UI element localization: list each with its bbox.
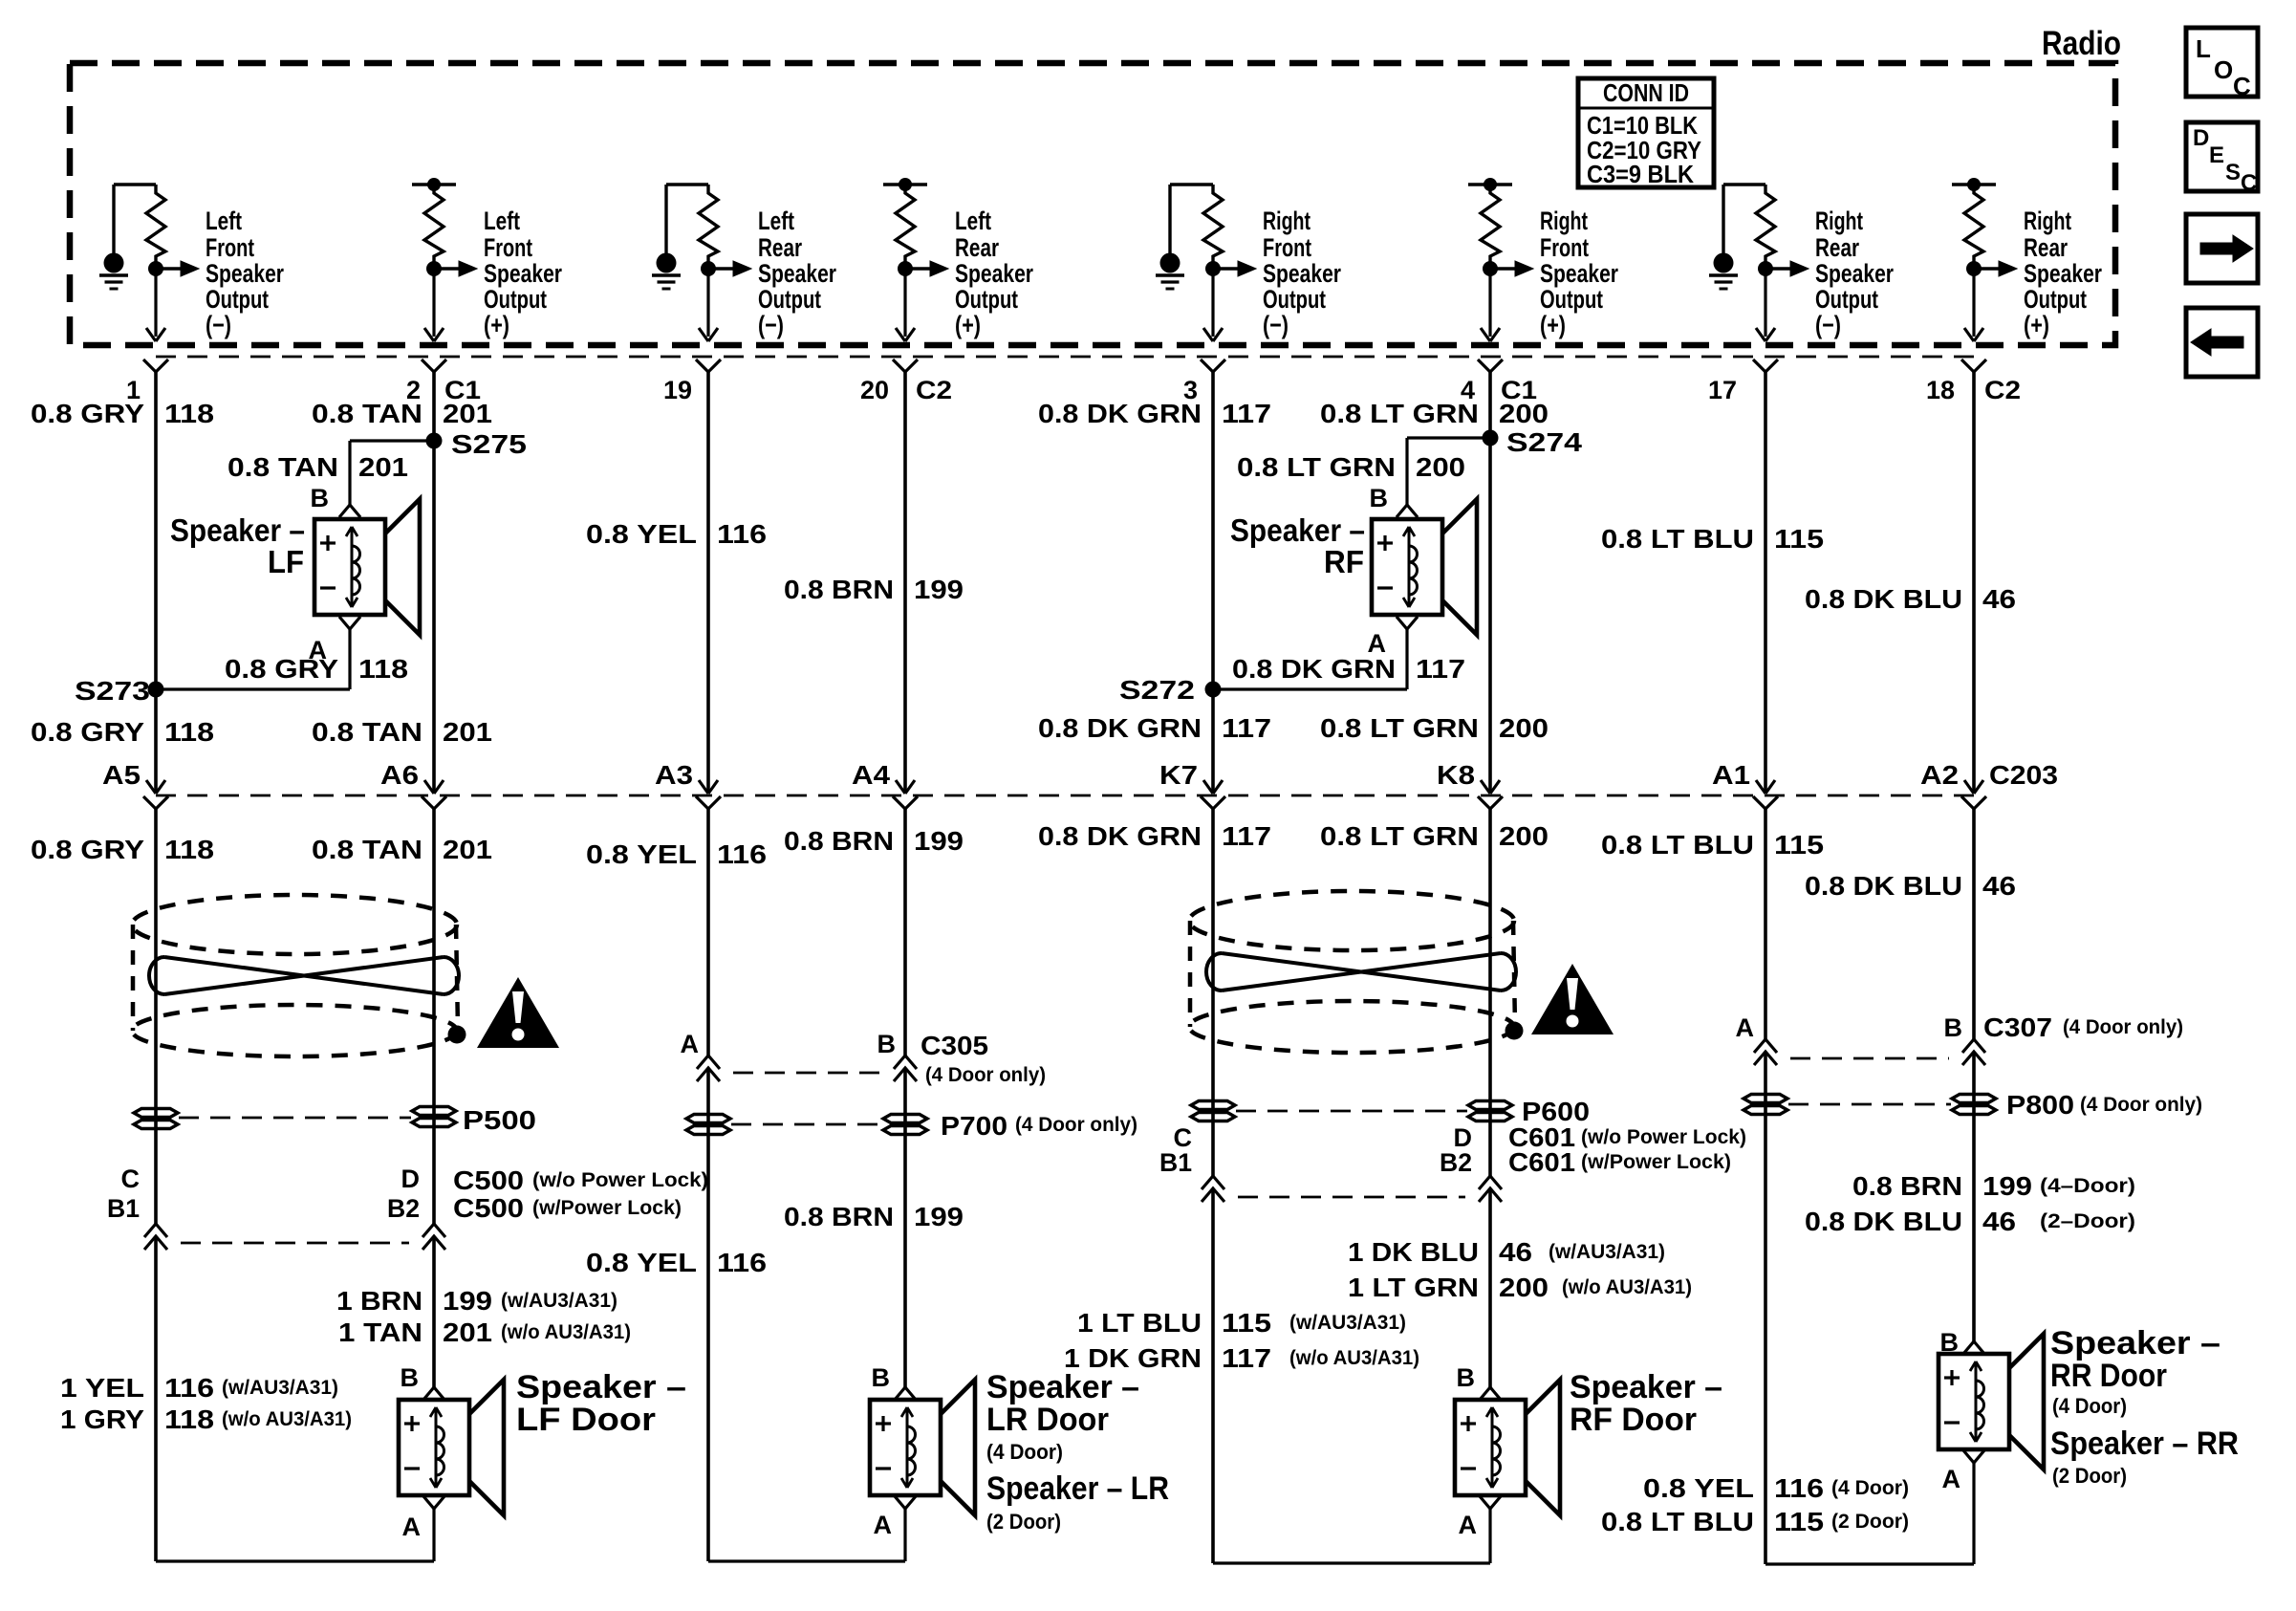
- svg-text:1 GRY: 1 GRY: [60, 1404, 144, 1434]
- svg-text:Front: Front: [1263, 233, 1311, 262]
- svg-text:0.8 TAN: 0.8 TAN: [312, 835, 422, 864]
- svg-text:Speaker: Speaker: [1815, 259, 1894, 288]
- svg-text:117: 117: [1222, 1343, 1271, 1373]
- svg-text:1 BRN: 1 BRN: [336, 1286, 422, 1316]
- svg-text:200: 200: [1499, 1273, 1549, 1302]
- svg-text:0.8 LT GRN: 0.8 LT GRN: [1237, 452, 1396, 482]
- svg-text:200: 200: [1416, 452, 1465, 482]
- svg-text:Rear: Rear: [955, 233, 999, 262]
- svg-text:O: O: [2214, 55, 2233, 84]
- svg-text:200: 200: [1499, 821, 1549, 851]
- svg-text:CONN ID: CONN ID: [1603, 78, 1689, 107]
- svg-text:P800: P800: [2006, 1090, 2074, 1120]
- svg-text:Speaker –: Speaker –: [1230, 512, 1365, 548]
- svg-text:0.8 DK BLU: 0.8 DK BLU: [1805, 871, 1962, 901]
- svg-text:B: B: [401, 1363, 420, 1392]
- svg-text:0.8 YEL: 0.8 YEL: [1643, 1473, 1754, 1503]
- svg-text:199: 199: [914, 1202, 964, 1231]
- svg-text:1 TAN: 1 TAN: [338, 1317, 422, 1347]
- svg-text:S272: S272: [1119, 675, 1195, 705]
- svg-text:Output: Output: [1815, 285, 1878, 314]
- svg-text:199: 199: [914, 826, 964, 856]
- svg-text:RF: RF: [1324, 544, 1364, 579]
- svg-text:0.8 TAN: 0.8 TAN: [227, 452, 338, 482]
- svg-text:Speaker: Speaker: [955, 259, 1033, 288]
- svg-text:(w/o AU3/A31): (w/o AU3/A31): [1562, 1276, 1692, 1298]
- svg-text:116: 116: [717, 1248, 767, 1277]
- svg-text:(w/Power Lock): (w/Power Lock): [532, 1197, 682, 1219]
- svg-text:1 YEL: 1 YEL: [60, 1373, 144, 1403]
- svg-text:0.8 BRN: 0.8 BRN: [1852, 1171, 1962, 1201]
- svg-text:(+): (+): [2024, 311, 2049, 339]
- svg-text:(w/AU3/A31): (w/AU3/A31): [1289, 1312, 1406, 1334]
- svg-text:C: C: [2233, 72, 2251, 100]
- svg-text:C500: C500: [453, 1193, 524, 1223]
- svg-text:A: A: [1942, 1465, 1961, 1493]
- svg-text:Radio: Radio: [2042, 25, 2121, 62]
- svg-text:(4 Door only): (4 Door only): [2080, 1094, 2202, 1116]
- svg-text:B: B: [1944, 1013, 1963, 1042]
- svg-text:0.8 DK GRN: 0.8 DK GRN: [1038, 713, 1202, 743]
- svg-text:Speaker –: Speaker –: [1570, 1369, 1722, 1405]
- svg-text:C500: C500: [453, 1165, 524, 1195]
- svg-text:(2–Door): (2–Door): [2040, 1210, 2135, 1232]
- svg-text:118: 118: [164, 399, 214, 428]
- svg-text:E: E: [2209, 142, 2224, 168]
- svg-text:0.8 TAN: 0.8 TAN: [312, 399, 422, 428]
- svg-text:C601: C601: [1508, 1147, 1575, 1177]
- svg-text:B2: B2: [387, 1194, 420, 1223]
- svg-text:116: 116: [717, 839, 767, 869]
- svg-text:201: 201: [443, 717, 492, 747]
- svg-text:A3: A3: [655, 760, 693, 790]
- svg-text:116: 116: [164, 1373, 214, 1403]
- svg-text:116: 116: [717, 519, 767, 549]
- svg-text:0.8 LT BLU: 0.8 LT BLU: [1601, 524, 1754, 554]
- svg-text:115: 115: [1774, 830, 1824, 860]
- svg-text:199: 199: [1982, 1171, 2032, 1201]
- svg-text:A: A: [874, 1511, 893, 1539]
- svg-text:Output: Output: [955, 285, 1018, 314]
- svg-text:A4: A4: [852, 760, 890, 790]
- svg-text:S275: S275: [451, 429, 527, 459]
- svg-text:Right: Right: [1263, 207, 1310, 235]
- svg-text:Speaker –: Speaker –: [986, 1369, 1139, 1405]
- svg-text:46: 46: [1499, 1237, 1532, 1267]
- svg-text:0.8 GRY: 0.8 GRY: [31, 717, 144, 747]
- svg-text:C2: C2: [916, 376, 952, 404]
- svg-text:C305: C305: [921, 1031, 988, 1060]
- svg-text:118: 118: [164, 717, 214, 747]
- svg-text:S273: S273: [75, 676, 150, 706]
- svg-text:Rear: Rear: [1815, 233, 1859, 262]
- svg-text:C: C: [121, 1165, 141, 1193]
- svg-text:117: 117: [1222, 399, 1271, 428]
- svg-text:201: 201: [443, 399, 492, 428]
- svg-text:(+): (+): [955, 311, 981, 339]
- svg-text:46: 46: [1982, 871, 2016, 901]
- svg-text:200: 200: [1499, 399, 1549, 428]
- svg-text:(4 Door): (4 Door): [986, 1440, 1063, 1464]
- svg-text:46: 46: [1982, 1207, 2016, 1236]
- svg-text:Speaker: Speaker: [2024, 259, 2102, 288]
- svg-text:B: B: [1457, 1363, 1476, 1392]
- svg-text:(−): (−): [206, 311, 231, 339]
- svg-text:200: 200: [1499, 713, 1549, 743]
- svg-text:(w/o Power Lock): (w/o Power Lock): [1581, 1126, 1746, 1148]
- svg-text:C: C: [2241, 170, 2257, 196]
- svg-text:1 DK BLU: 1 DK BLU: [1348, 1237, 1479, 1267]
- svg-text:RR Door: RR Door: [2050, 1358, 2167, 1394]
- svg-text:A1: A1: [1712, 760, 1750, 790]
- svg-text:18: 18: [1926, 376, 1955, 404]
- svg-text:(2 Door): (2 Door): [986, 1510, 1061, 1534]
- svg-text:116: 116: [1774, 1473, 1824, 1503]
- svg-text:B: B: [1940, 1328, 1960, 1357]
- svg-text:0.8 GRY: 0.8 GRY: [31, 399, 144, 428]
- svg-text:20: 20: [860, 376, 889, 404]
- svg-text:(−): (−): [758, 311, 784, 339]
- svg-text:19: 19: [663, 376, 692, 404]
- svg-text:D: D: [2193, 125, 2209, 151]
- svg-text:Speaker –: Speaker –: [2050, 1325, 2220, 1361]
- svg-text:(w/Power Lock): (w/Power Lock): [1581, 1151, 1731, 1173]
- svg-text:Speaker: Speaker: [206, 259, 284, 288]
- svg-text:B: B: [311, 484, 330, 512]
- svg-text:(w/AU3/A31): (w/AU3/A31): [1549, 1241, 1665, 1263]
- svg-text:115: 115: [1774, 1507, 1824, 1536]
- svg-text:B: B: [872, 1363, 891, 1392]
- svg-text:(w/AU3/A31): (w/AU3/A31): [501, 1290, 617, 1312]
- svg-text:A6: A6: [380, 760, 419, 790]
- svg-text:0.8 DK GRN: 0.8 DK GRN: [1038, 821, 1202, 851]
- svg-text:(w/o AU3/A31): (w/o AU3/A31): [1289, 1347, 1419, 1369]
- svg-text:Left: Left: [484, 207, 520, 235]
- svg-text:118: 118: [164, 835, 214, 864]
- svg-text:Left: Left: [955, 207, 991, 235]
- svg-text:0.8 YEL: 0.8 YEL: [586, 1248, 697, 1277]
- svg-text:A: A: [681, 1030, 700, 1058]
- svg-text:(4 Door only): (4 Door only): [2063, 1016, 2183, 1038]
- svg-text:C203: C203: [1989, 760, 2058, 790]
- svg-text:0.8 YEL: 0.8 YEL: [586, 839, 697, 869]
- svg-text:(−): (−): [1263, 311, 1289, 339]
- svg-text:B: B: [1370, 484, 1389, 512]
- svg-text:D: D: [401, 1165, 421, 1193]
- svg-text:Right: Right: [2024, 207, 2071, 235]
- svg-text:Front: Front: [484, 233, 532, 262]
- svg-text:117: 117: [1222, 821, 1271, 851]
- svg-text:0.8 DK GRN: 0.8 DK GRN: [1232, 654, 1396, 684]
- svg-text:(4 Door only): (4 Door only): [1015, 1114, 1137, 1136]
- svg-text:Speaker –: Speaker –: [170, 512, 305, 548]
- svg-text:S: S: [2225, 160, 2241, 185]
- svg-text:115: 115: [1774, 524, 1824, 554]
- svg-text:Speaker: Speaker: [1263, 259, 1341, 288]
- svg-text:201: 201: [358, 452, 408, 482]
- svg-text:Speaker: Speaker: [1540, 259, 1618, 288]
- svg-text:46: 46: [1982, 584, 2016, 614]
- svg-text:Speaker: Speaker: [484, 259, 562, 288]
- svg-text:1 LT BLU: 1 LT BLU: [1077, 1308, 1202, 1338]
- svg-text:A: A: [1459, 1511, 1478, 1539]
- svg-text:Rear: Rear: [2024, 233, 2068, 262]
- svg-text:0.8 LT BLU: 0.8 LT BLU: [1601, 830, 1754, 860]
- svg-text:0.8 YEL: 0.8 YEL: [586, 519, 697, 549]
- svg-text:117: 117: [1416, 654, 1465, 684]
- svg-text:K7: K7: [1159, 760, 1198, 790]
- svg-text:A: A: [1368, 629, 1387, 658]
- svg-text:201: 201: [443, 835, 492, 864]
- svg-text:A: A: [309, 636, 328, 664]
- svg-text:C307: C307: [1983, 1012, 2052, 1042]
- svg-text:201: 201: [443, 1317, 492, 1347]
- svg-text:Output: Output: [1540, 285, 1603, 314]
- svg-text:Output: Output: [206, 285, 269, 314]
- svg-text:199: 199: [914, 575, 964, 604]
- svg-text:LR Door: LR Door: [986, 1402, 1109, 1438]
- svg-text:B2: B2: [1440, 1148, 1472, 1177]
- svg-text:Speaker –: Speaker –: [516, 1369, 686, 1405]
- svg-text:0.8 TAN: 0.8 TAN: [312, 717, 422, 747]
- svg-text:(w/o AU3/A31): (w/o AU3/A31): [501, 1321, 631, 1343]
- svg-text:C3=9 BLK: C3=9 BLK: [1587, 160, 1694, 188]
- svg-text:118: 118: [164, 1404, 214, 1434]
- svg-text:Rear: Rear: [758, 233, 802, 262]
- svg-text:(4 Door): (4 Door): [1831, 1477, 1909, 1499]
- svg-text:0.8 LT BLU: 0.8 LT BLU: [1601, 1507, 1754, 1536]
- svg-text:0.8 GRY: 0.8 GRY: [31, 835, 144, 864]
- svg-text:Right: Right: [1815, 207, 1863, 235]
- svg-text:P700: P700: [941, 1111, 1007, 1141]
- svg-text:Left: Left: [206, 207, 242, 235]
- svg-text:0.8 DK BLU: 0.8 DK BLU: [1805, 1207, 1962, 1236]
- svg-text:118: 118: [358, 654, 408, 684]
- svg-text:115: 115: [1222, 1308, 1271, 1338]
- svg-text:(w/AU3/A31): (w/AU3/A31): [222, 1377, 338, 1399]
- svg-text:0.8 BRN: 0.8 BRN: [784, 1202, 894, 1231]
- svg-text:0.8 LT GRN: 0.8 LT GRN: [1320, 399, 1479, 428]
- svg-text:1 LT GRN: 1 LT GRN: [1348, 1273, 1479, 1302]
- svg-text:0.8 DK GRN: 0.8 DK GRN: [1038, 399, 1202, 428]
- svg-text:S274: S274: [1506, 427, 1583, 457]
- svg-text:(−): (−): [1815, 311, 1841, 339]
- svg-text:Left: Left: [758, 207, 794, 235]
- svg-text:Front: Front: [206, 233, 254, 262]
- svg-text:Output: Output: [758, 285, 821, 314]
- svg-text:Output: Output: [1263, 285, 1326, 314]
- svg-text:(4–Door): (4–Door): [2040, 1175, 2135, 1197]
- svg-text:P500: P500: [463, 1105, 536, 1135]
- svg-text:0.8 BRN: 0.8 BRN: [784, 575, 894, 604]
- svg-text:117: 117: [1222, 713, 1271, 743]
- svg-text:17: 17: [1708, 376, 1737, 404]
- svg-text:0.8 LT GRN: 0.8 LT GRN: [1320, 713, 1479, 743]
- svg-text:199: 199: [443, 1286, 492, 1316]
- svg-text:LF Door: LF Door: [516, 1402, 656, 1438]
- svg-text:Speaker: Speaker: [758, 259, 836, 288]
- svg-text:(+): (+): [1540, 311, 1566, 339]
- svg-text:A: A: [402, 1513, 422, 1541]
- svg-text:B: B: [877, 1030, 897, 1058]
- svg-text:A5: A5: [102, 760, 141, 790]
- svg-text:(4 Door): (4 Door): [2052, 1394, 2127, 1418]
- svg-text:Output: Output: [2024, 285, 2087, 314]
- svg-text:Right: Right: [1540, 207, 1588, 235]
- svg-text:K8: K8: [1437, 760, 1475, 790]
- svg-text:Output: Output: [484, 285, 547, 314]
- svg-text:B1: B1: [1159, 1148, 1192, 1177]
- svg-text:Speaker – LR: Speaker – LR: [986, 1470, 1169, 1507]
- svg-text:0.8 LT GRN: 0.8 LT GRN: [1320, 821, 1479, 851]
- svg-text:(2 Door): (2 Door): [2052, 1464, 2127, 1488]
- svg-text:RF Door: RF Door: [1570, 1402, 1697, 1438]
- svg-text:(4 Door only): (4 Door only): [925, 1064, 1046, 1086]
- svg-text:Speaker – RR: Speaker – RR: [2050, 1426, 2239, 1462]
- svg-text:LF: LF: [268, 544, 304, 579]
- svg-text:(2 Door): (2 Door): [1831, 1511, 1909, 1533]
- svg-text:L: L: [2196, 34, 2211, 63]
- svg-text:(w/o Power Lock): (w/o Power Lock): [532, 1169, 708, 1191]
- svg-text:A2: A2: [1920, 760, 1959, 790]
- svg-text:0.8 DK BLU: 0.8 DK BLU: [1805, 584, 1962, 614]
- svg-text:(+): (+): [484, 311, 509, 339]
- svg-text:C2: C2: [1984, 376, 2021, 404]
- svg-text:A: A: [1736, 1013, 1755, 1042]
- svg-text:Front: Front: [1540, 233, 1589, 262]
- svg-text:0.8 BRN: 0.8 BRN: [784, 826, 894, 856]
- svg-text:(w/o AU3/A31): (w/o AU3/A31): [222, 1408, 352, 1430]
- svg-text:B1: B1: [107, 1194, 140, 1223]
